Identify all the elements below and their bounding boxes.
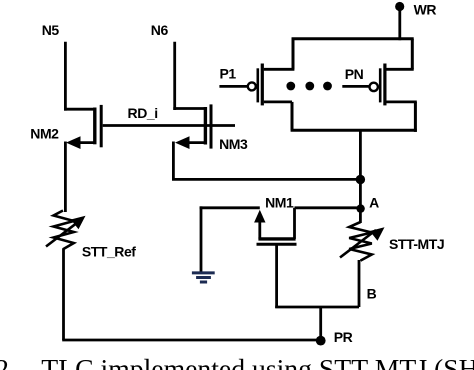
svg-text:STT-MTJ: STT-MTJ bbox=[389, 236, 444, 252]
svg-text:P1: P1 bbox=[219, 66, 236, 82]
svg-text:A: A bbox=[369, 195, 379, 211]
svg-text:2.: 2. bbox=[0, 353, 16, 370]
wire STT_Ref bottom vertical bbox=[62, 249, 65, 341]
wire N5 vertical bbox=[64, 42, 67, 111]
wire WR vertical bbox=[398, 7, 401, 41]
wire PR vertical bbox=[319, 307, 322, 341]
svg-text:B: B bbox=[367, 286, 377, 302]
wire N6 vertical bbox=[173, 42, 176, 110]
transistor P1 bbox=[219, 64, 294, 106]
svg-text:NM3: NM3 bbox=[219, 136, 248, 152]
pmos array right edge upper bbox=[411, 39, 414, 70]
svg-text:NM2: NM2 bbox=[30, 125, 59, 141]
wire NM1 source horizontal bbox=[200, 206, 260, 209]
junction dot bbox=[356, 175, 365, 184]
pmos array left edge lower bbox=[291, 102, 294, 130]
wire NM3 drain horizontal bbox=[173, 107, 205, 110]
wire NM2 drain horizontal bbox=[64, 108, 95, 111]
transistor NM2 bbox=[66, 105, 101, 149]
svg-text:STT_Ref: STT_Ref bbox=[82, 244, 136, 260]
resistor STT_Ref bbox=[46, 211, 86, 250]
svg-text:TLC implemented using STT-MTJ: TLC implemented using STT-MTJ (SH bbox=[41, 353, 474, 370]
wire NM2 source vertical bbox=[64, 142, 67, 213]
svg-text:NM1: NM1 bbox=[265, 194, 294, 210]
node PR dot bbox=[316, 336, 326, 346]
wire NM1 drain to node A bbox=[295, 206, 361, 209]
svg-text:WR: WR bbox=[414, 1, 437, 17]
wire STT-MTJ bottom vertical bbox=[358, 260, 361, 307]
svg-text:RD_i: RD_i bbox=[128, 105, 158, 121]
svg-text:PR: PR bbox=[334, 329, 353, 345]
wire bottom rail to PR bbox=[62, 339, 321, 342]
svg-text:N6: N6 bbox=[151, 22, 169, 38]
wire NM3 source to junction bbox=[172, 178, 360, 181]
wire NM3 source vertical bbox=[172, 142, 175, 180]
node A dot bbox=[356, 204, 364, 212]
wire NM1 gate to B rail bbox=[275, 306, 359, 309]
wire ground vertical bbox=[200, 206, 203, 272]
svg-text:N5: N5 bbox=[42, 22, 60, 38]
transistor NM3 bbox=[175, 104, 211, 149]
svg-text:PN: PN bbox=[345, 66, 364, 82]
wire junction vertical bbox=[359, 130, 362, 223]
pmos array right edge lower bbox=[414, 102, 417, 132]
transistor PN bbox=[342, 64, 417, 106]
node WR dot bbox=[395, 2, 404, 11]
pmos array top rail bbox=[292, 37, 414, 40]
pmos array bottom rail bbox=[291, 129, 417, 132]
wire RD_i gate wire bbox=[103, 124, 235, 127]
pmos array left edge upper bbox=[292, 38, 295, 70]
ground bbox=[192, 273, 215, 282]
transistor NM1 bbox=[254, 208, 296, 308]
pmos array dots bbox=[286, 82, 332, 91]
resistor STT-MTJ bbox=[340, 222, 385, 261]
